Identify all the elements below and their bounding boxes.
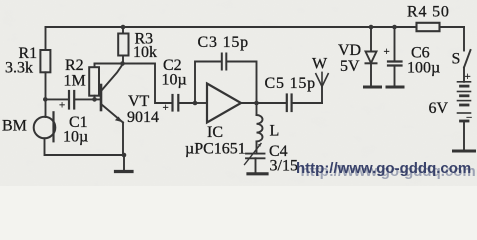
svg-text:R4 50: R4 50 [407, 4, 450, 21]
label L [270, 123, 280, 140]
resistor R1 [40, 27, 50, 117]
transistor VT 9014 [101, 65, 123, 156]
svg-text:L: L [270, 123, 280, 140]
svg-text:+: + [59, 100, 65, 112]
svg-text:VD: VD [338, 42, 361, 59]
svg-text:9014: 9014 [127, 109, 159, 126]
svg-text:+: + [384, 46, 390, 58]
svg-text:µPC1651: µPC1651 [185, 141, 246, 158]
wire top supply rail [46, 26, 465, 28]
label W [312, 56, 328, 73]
wire BM bottom to ground node [45, 138, 125, 155]
label C6 [407, 45, 440, 77]
svg-text:10µ: 10µ [162, 72, 187, 89]
switch S [464, 27, 471, 82]
capacitor C6 [387, 27, 403, 87]
label R2 [64, 57, 86, 90]
svg-text:W: W [312, 56, 328, 73]
capacitor C5 [257, 95, 323, 112]
label C6 plus [384, 46, 390, 58]
svg-text:http://www.go-gddq.com: http://www.go-gddq.com [296, 160, 471, 177]
svg-text:C5 15p: C5 15p [265, 75, 316, 92]
svg-text:6V: 6V [429, 100, 449, 117]
ground [116, 155, 133, 172]
label S [452, 51, 461, 68]
svg-text:+: + [163, 102, 169, 114]
node emitter/ground junction [122, 153, 127, 158]
node IC input [193, 101, 198, 106]
svg-text:BM: BM [2, 118, 27, 135]
node R2/base junction [92, 97, 97, 102]
label battery plus [465, 71, 471, 83]
svg-text:VT: VT [128, 93, 150, 110]
label VT [127, 93, 159, 126]
antenna W [316, 72, 328, 103]
capacitor C3 feedback [195, 54, 257, 104]
svg-text:5V: 5V [340, 58, 360, 75]
label C1 [63, 114, 88, 146]
label C2 plus [163, 102, 169, 114]
node A (R1/C1/BM junction) [43, 97, 48, 102]
node IC output [254, 101, 259, 106]
svg-text:S: S [452, 51, 461, 68]
svg-text:10µ: 10µ [63, 129, 88, 146]
battery 6V [454, 82, 475, 151]
capacitor C1 [45, 91, 101, 109]
label C2 [162, 57, 187, 89]
label C3 [198, 34, 249, 51]
label C4 [269, 143, 298, 175]
label VD [338, 42, 361, 75]
label R3 [133, 31, 157, 62]
node R3 top rail junction [121, 25, 126, 30]
op-amp IC uPC1651 [195, 84, 257, 123]
svg-text:−: − [466, 112, 472, 124]
label C5 [265, 75, 316, 92]
svg-text:10k: 10k [133, 44, 157, 61]
svg-text:3.3k: 3.3k [5, 60, 33, 77]
svg-text:R2: R2 [65, 57, 84, 74]
label C1 plus [59, 100, 65, 112]
node VD rail junction [369, 25, 374, 30]
label R4 [407, 4, 450, 21]
inductor L [257, 103, 263, 154]
label 6V [429, 100, 449, 117]
resistor R3 [118, 27, 128, 64]
node C6 rail junction [392, 25, 397, 30]
svg-text:1M: 1M [64, 73, 86, 90]
capacitor C4 trimmer [245, 143, 268, 174]
svg-text:IC: IC [207, 124, 223, 141]
label IC [185, 124, 246, 158]
svg-text:C3 15p: C3 15p [198, 34, 249, 51]
microphone BM [34, 112, 56, 141]
resistor R2 [89, 64, 122, 100]
zener diode VD [365, 27, 381, 87]
svg-text:3/15: 3/15 [270, 158, 298, 175]
resistor R4 [417, 23, 440, 31]
label R1 [5, 45, 37, 77]
label battery minus [466, 112, 472, 124]
node collector junction [120, 61, 125, 66]
capacitor C2 [123, 64, 196, 111]
svg-text:100µ: 100µ [407, 60, 440, 77]
svg-text:+: + [465, 71, 471, 83]
label BM [2, 118, 27, 135]
